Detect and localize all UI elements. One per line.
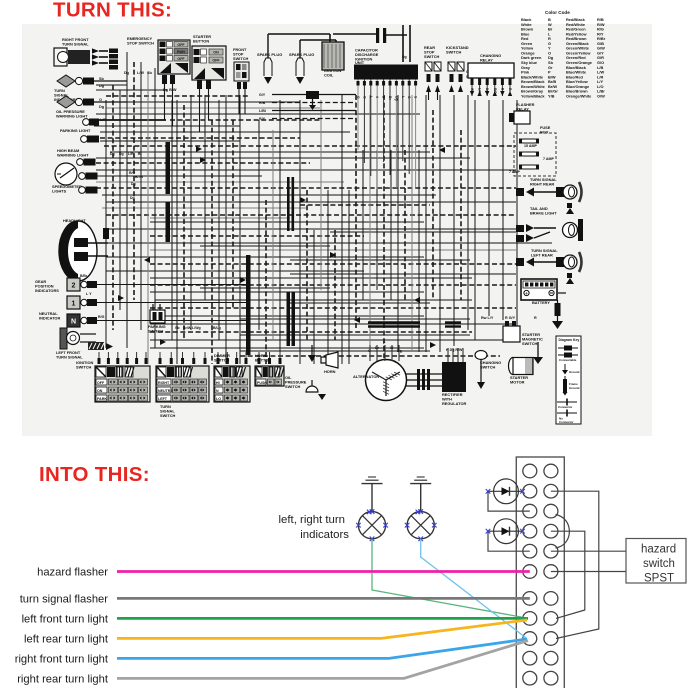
arc row3-right to row5-right <box>556 515 570 549</box>
svg-text:R/G: R/G <box>493 88 497 94</box>
svg-text:B/Lg: B/Lg <box>213 326 221 330</box>
svg-text:RIGHT REAR: RIGHT REAR <box>530 182 554 187</box>
parking switch <box>150 310 165 323</box>
svg-text:left rear turn light: left rear turn light <box>24 633 109 645</box>
svg-text:Connector: Connector <box>558 405 573 409</box>
left front turn signal <box>60 328 67 349</box>
svg-text:hazard flasher: hazard flasher <box>37 567 108 579</box>
svg-text:SWITCH: SWITCH <box>522 341 538 346</box>
svg-text:7 AMP: 7 AMP <box>509 170 520 174</box>
svg-text:OFF: OFF <box>177 43 185 47</box>
svg-text:Connectable: Connectable <box>559 358 577 362</box>
svg-text:Dg: Dg <box>485 88 489 92</box>
svg-text:BUTTON: BUTTON <box>193 39 209 44</box>
svg-text:OFF: OFF <box>177 57 185 61</box>
svg-text:SWITCH: SWITCH <box>76 365 92 370</box>
svg-text:Dg: Dg <box>131 182 136 186</box>
svg-text:INTO THIS:: INTO THIS: <box>39 463 150 486</box>
svg-text:Color Code: Color Code <box>545 10 570 15</box>
svg-text:Diagram Key: Diagram Key <box>559 338 580 342</box>
svg-text:ALTERNATOR: ALTERNATOR <box>353 374 379 379</box>
left front turn light wire <box>117 617 528 620</box>
gear position indicator 1 <box>67 296 80 309</box>
svg-text:SPST: SPST <box>644 573 674 585</box>
svg-text:OFF: OFF <box>97 381 105 385</box>
svg-text:SWITCH: SWITCH <box>214 358 230 363</box>
svg-text:Ground: Ground <box>569 386 580 390</box>
svg-text:B/Br: B/Br <box>80 274 88 278</box>
svg-text:Br/W L/Wg: Br/W L/Wg <box>183 326 201 330</box>
svg-text:SWITCH: SWITCH <box>285 384 301 389</box>
svg-text:UNIT: UNIT <box>355 60 365 65</box>
dimmer switch table <box>214 366 250 402</box>
svg-text:TURN SIGNAL: TURN SIGNAL <box>56 355 83 360</box>
svg-text:Ground: Ground <box>569 370 580 374</box>
svg-text:R/Y: R/Y <box>259 117 266 121</box>
left rear turn light wire <box>117 620 527 638</box>
svg-text:RELAY: RELAY <box>480 58 493 63</box>
svg-text:Orange/White: Orange/White <box>566 94 592 99</box>
junction arrows <box>196 146 202 152</box>
right rear turn light wire <box>117 641 528 679</box>
svg-text:SWITCH: SWITCH <box>160 413 176 418</box>
connector bus bar mid2 <box>287 292 291 346</box>
wire mesh: vertical bus lines <box>106 52 517 364</box>
battery ground fuse <box>558 292 566 294</box>
svg-text:WARNING LIGHT: WARNING LIGHT <box>56 114 88 119</box>
svg-text:INDICATORS: INDICATORS <box>35 288 59 293</box>
svg-text:SPARK PLUG: SPARK PLUG <box>257 52 282 57</box>
svg-text:RUN: RUN <box>177 50 185 54</box>
svg-text:2: 2 <box>72 283 76 290</box>
turn signal switch table <box>156 366 209 402</box>
ground symbol lamp 2 <box>410 483 431 485</box>
svg-text:Dg: Dg <box>119 152 124 156</box>
hazard switch SPST box <box>626 539 686 584</box>
alternator pins <box>369 345 371 361</box>
CDI pins <box>357 80 359 151</box>
svg-text:Sb: Sb <box>147 71 153 75</box>
svg-text:BUTTON: BUTTON <box>255 358 271 363</box>
wire D1 loop to pin row 3 <box>488 491 530 511</box>
battery <box>521 279 557 300</box>
thick double bars mid mesh <box>287 177 290 231</box>
connector strip <box>516 457 564 688</box>
wire D2 loop to pin row 5 <box>488 531 530 551</box>
ignition switch table <box>95 366 150 402</box>
gear indicator wires <box>97 284 250 286</box>
svg-text:HORN: HORN <box>324 369 336 374</box>
svg-text:hazard: hazard <box>641 544 676 556</box>
svg-text:LO: LO <box>216 397 221 401</box>
svg-text:15 AMP: 15 AMP <box>524 144 537 148</box>
svg-text:REGULATOR: REGULATOR <box>442 401 466 406</box>
svg-text:left, right turn: left, right turn <box>279 514 345 526</box>
svg-text:HI: HI <box>216 381 220 385</box>
connector bus bar left <box>166 142 171 194</box>
hazard flasher wire <box>117 570 530 573</box>
horn <box>326 352 338 368</box>
wire row4-right to row8-right <box>551 531 585 618</box>
svg-text:RIGHT: RIGHT <box>158 381 170 385</box>
label left right turn indicators <box>279 514 350 541</box>
svg-text:LEFT REAR: LEFT REAR <box>531 253 553 258</box>
svg-text:Sb: Sb <box>99 77 105 81</box>
svg-text:SWITCH: SWITCH <box>424 54 440 59</box>
connector block <box>109 49 118 54</box>
svg-text:W: W <box>390 346 394 350</box>
svg-text:COIL: COIL <box>324 73 334 78</box>
svg-text:L/Bl: L/Bl <box>259 109 266 113</box>
rectifier connector bars <box>417 369 420 390</box>
wire lamp1 to pin row8 <box>372 539 526 618</box>
indicator lamp 2 <box>407 512 434 539</box>
svg-text:left front turn light: left front turn light <box>22 613 109 625</box>
svg-text:INDICATOR: INDICATOR <box>39 316 60 321</box>
svg-text:ON: ON <box>97 389 103 393</box>
svg-text:BRAKE LIGHT: BRAKE LIGHT <box>530 211 557 216</box>
svg-text:N: N <box>216 389 219 393</box>
svg-text:L/R: L/R <box>128 152 134 156</box>
horn button table <box>255 366 284 386</box>
svg-text:right rear turn light: right rear turn light <box>17 673 109 685</box>
lamp 1 stem <box>371 484 373 512</box>
svg-text:Yellow/Black: Yellow/Black <box>521 94 545 99</box>
svg-text:R G/Y: R G/Y <box>505 316 516 320</box>
junction block <box>306 91 319 99</box>
svg-text:Dg: Dg <box>130 196 135 200</box>
diagram key box <box>556 336 581 424</box>
svg-text:7 AMP: 7 AMP <box>543 157 554 161</box>
svg-text:OFF: OFF <box>212 59 220 63</box>
svg-text:Y/B: Y/B <box>548 94 555 99</box>
svg-text:R: R <box>534 316 537 320</box>
capacitor <box>376 28 379 43</box>
turn signal right rear <box>516 188 524 196</box>
connector bus bar mid <box>246 255 251 355</box>
svg-text:MOTOR: MOTOR <box>510 380 525 385</box>
svg-text:turn signal flasher: turn signal flasher <box>20 593 109 605</box>
svg-text:R/B: R/B <box>259 101 266 105</box>
switch tab wires down <box>164 84 166 120</box>
right front turn light wire <box>117 639 527 658</box>
svg-text:WARNING LIGHT: WARNING LIGHT <box>57 153 89 158</box>
speedometer lights <box>79 173 86 180</box>
svg-text:LIGHTS: LIGHTS <box>52 189 67 194</box>
svg-text:L/R: L/R <box>100 118 106 122</box>
wire row5-right to hazard switch <box>551 550 626 552</box>
svg-text:+: + <box>525 291 528 296</box>
svg-text:TURN THIS:: TURN THIS: <box>53 0 172 22</box>
svg-text:Rw L/Y: Rw L/Y <box>481 316 494 320</box>
wire row6-right to hazard switch <box>551 571 626 573</box>
diode D2 <box>494 519 519 544</box>
svg-text:SWITCH: SWITCH <box>480 365 496 370</box>
svg-text:Dg B/W: Dg B/W <box>163 88 177 92</box>
svg-text:H Dg R/W: H Dg R/W <box>446 348 463 352</box>
svg-text:O: O <box>368 349 371 353</box>
svg-text:Sb: Sb <box>175 326 179 330</box>
svg-text:Dg: Dg <box>124 71 130 75</box>
svg-text:Br/W: Br/W <box>135 175 144 179</box>
turn signal flasher wire <box>117 597 530 600</box>
svg-text:STOP SWITCH: STOP SWITCH <box>127 41 154 46</box>
svg-text:R/G: R/G <box>98 315 105 319</box>
svg-text:ON: ON <box>213 51 219 55</box>
svg-text:BATTERY: BATTERY <box>532 300 550 305</box>
spark plug top bus wires <box>268 33 330 35</box>
svg-text:right front turn light: right front turn light <box>15 653 109 665</box>
svg-text:LEFT: LEFT <box>158 397 168 401</box>
svg-text:G: G <box>356 96 360 99</box>
svg-text:SWITCH: SWITCH <box>446 50 462 55</box>
svg-text:O: O <box>362 96 366 99</box>
svg-text:Dg: Dg <box>99 84 105 88</box>
svg-text:L Y: L Y <box>86 292 92 296</box>
svg-text:BOX: BOX <box>540 130 549 135</box>
svg-text:PARK: PARK <box>97 397 107 401</box>
wire labels <box>15 567 109 686</box>
ground symbol lamp 1 <box>362 483 383 485</box>
wires from capacitor to CDI <box>402 25 404 62</box>
svg-text:L: L <box>401 96 405 98</box>
svg-text:PUSH: PUSH <box>257 381 267 385</box>
svg-text:N: N <box>71 319 76 326</box>
svg-text:G/Y: G/Y <box>259 93 266 97</box>
starter motor <box>509 358 518 375</box>
svg-text:indicators: indicators <box>300 529 349 541</box>
svg-text:Dg: Dg <box>110 152 115 156</box>
wire row2-right to row9-right <box>551 491 599 638</box>
svg-text:4: 4 <box>375 96 379 98</box>
svg-text:SWITCH: SWITCH <box>233 56 249 61</box>
svg-text:SPARK PLUG: SPARK PLUG <box>289 52 314 57</box>
svg-text:SWITCH: SWITCH <box>148 329 164 334</box>
indicator lamp 1 <box>358 512 385 539</box>
svg-text:L/W: L/W <box>137 71 144 75</box>
svg-text:Dg: Dg <box>99 105 105 109</box>
scan background <box>22 24 652 436</box>
connector square on headlight wire <box>103 228 109 239</box>
connector pin holes <box>523 464 558 685</box>
lamp 2 stem <box>420 484 422 512</box>
starter magnetic switch <box>503 326 520 342</box>
svg-text:Connector: Connector <box>559 420 574 424</box>
svg-text:PARKING LIGHT: PARKING LIGHT <box>60 128 91 133</box>
svg-text:switch: switch <box>643 558 675 570</box>
svg-text:G: G <box>407 96 411 99</box>
svg-text:L: L <box>369 96 373 98</box>
svg-text:L/Y: L/Y <box>478 88 482 94</box>
svg-text:1: 1 <box>72 301 76 308</box>
svg-text:O: O <box>99 98 102 102</box>
svg-text:Dg: Dg <box>394 96 398 101</box>
speedometer <box>55 163 77 185</box>
wire mesh: horizontal bus lines <box>94 85 552 356</box>
svg-text:Dg: Dg <box>402 55 407 59</box>
rectifier with regulator <box>442 362 466 392</box>
svg-text:O/W: O/W <box>597 94 605 99</box>
svg-text:Br: Br <box>375 346 380 350</box>
svg-text:Dg: Dg <box>397 349 402 353</box>
alternator <box>366 360 407 401</box>
wire lamp2 to pin row9 <box>421 539 527 639</box>
svg-text:TURN SIGNAL: TURN SIGNAL <box>62 42 89 47</box>
diode D1 <box>494 479 519 504</box>
